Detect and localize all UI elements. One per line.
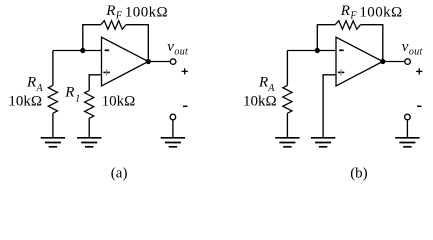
op-amp U1 (a) minus sign xyxy=(105,49,110,51)
svg-text:10kΩ: 10kΩ xyxy=(243,94,277,110)
ground under R1 (a) xyxy=(77,138,101,147)
svg-text:(a): (a) xyxy=(111,166,128,182)
svg-text:out: out xyxy=(174,47,188,58)
svg-text:10kΩ: 10kΩ xyxy=(102,94,136,110)
svg-text:A: A xyxy=(36,83,44,94)
label minus terminal (b) xyxy=(417,105,422,107)
label plus terminal (b) xyxy=(416,68,422,74)
op-amp U1 (a) plus sign xyxy=(103,71,109,73)
node output dot (b) xyxy=(380,59,385,64)
svg-text:F: F xyxy=(349,10,357,21)
wire RA to ground (a) xyxy=(52,113,54,138)
svg-text:R: R xyxy=(105,3,115,19)
terminal vout circle (a) xyxy=(170,59,176,65)
op-amp U2 (b) plus sign xyxy=(338,71,344,73)
svg-text:v: v xyxy=(402,39,409,55)
op-amp U1 (a) triangle xyxy=(102,37,149,86)
label minus terminal (a) xyxy=(183,105,188,107)
ground under noninverting input (b) xyxy=(311,138,335,147)
svg-text:F: F xyxy=(115,10,123,21)
terminal lower circle (a) xyxy=(170,114,176,120)
ground under RA (a) xyxy=(41,138,65,147)
wire RF right to output (b) xyxy=(360,25,382,62)
wire RA to ground (b) xyxy=(286,113,288,138)
ground under RA (b) xyxy=(275,138,299,147)
op-amp U2 (b) triangle xyxy=(336,37,383,86)
ground under lower terminal (a) xyxy=(161,138,185,147)
node junction dot (b) inverting input xyxy=(315,48,320,53)
wire feedback loop (b): node to RF to output xyxy=(317,25,335,51)
wire R1 to ground (a) xyxy=(88,118,90,138)
node output dot (a) xyxy=(146,59,151,64)
wire left branch down to RA (a) xyxy=(52,51,54,86)
wire noninverting input to ground (b) xyxy=(323,75,336,138)
wire output (a) xyxy=(148,61,170,63)
wire lower terminal to ground (a) xyxy=(172,120,174,138)
svg-text:R: R xyxy=(26,75,36,91)
node junction dot (a) inverting input xyxy=(80,48,85,53)
svg-text:(b): (b) xyxy=(350,166,368,182)
op-amp U2 (b) minus sign xyxy=(339,49,344,51)
svg-text:A: A xyxy=(267,83,275,94)
svg-text:out: out xyxy=(409,47,423,58)
wire noninverting input (a) xyxy=(89,75,101,91)
svg-text:R: R xyxy=(340,3,350,19)
resistor RA (b) zigzag xyxy=(283,85,292,113)
terminal vout circle (b) xyxy=(405,59,411,65)
wire output (b) xyxy=(383,61,405,63)
ground under lower terminal (b) xyxy=(395,138,419,147)
svg-text:10kΩ: 10kΩ xyxy=(8,94,42,110)
terminal lower circle (b) xyxy=(405,114,411,120)
label plus terminal (a) xyxy=(182,68,188,74)
wire inverting input (b) xyxy=(287,50,336,52)
resistor RA (a) zigzag xyxy=(48,85,57,113)
wire feedback loop (a): node to RF to output xyxy=(83,25,101,51)
wire RF right to output (a) xyxy=(126,25,148,62)
wire lower terminal to ground (b) xyxy=(406,120,408,138)
resistor RF (a) zigzag xyxy=(101,21,126,30)
svg-text:1: 1 xyxy=(75,93,80,104)
resistor R1 (a) zigzag xyxy=(85,91,94,119)
svg-text:R: R xyxy=(258,75,268,91)
svg-text:R: R xyxy=(64,85,74,101)
svg-text:v: v xyxy=(167,39,174,55)
svg-text:100kΩ: 100kΩ xyxy=(359,4,402,20)
wire inverting input (a) xyxy=(53,50,102,52)
resistor RF (b) zigzag xyxy=(335,21,360,30)
svg-text:100kΩ: 100kΩ xyxy=(125,4,168,20)
wire left branch down to RA (b) xyxy=(286,51,288,86)
